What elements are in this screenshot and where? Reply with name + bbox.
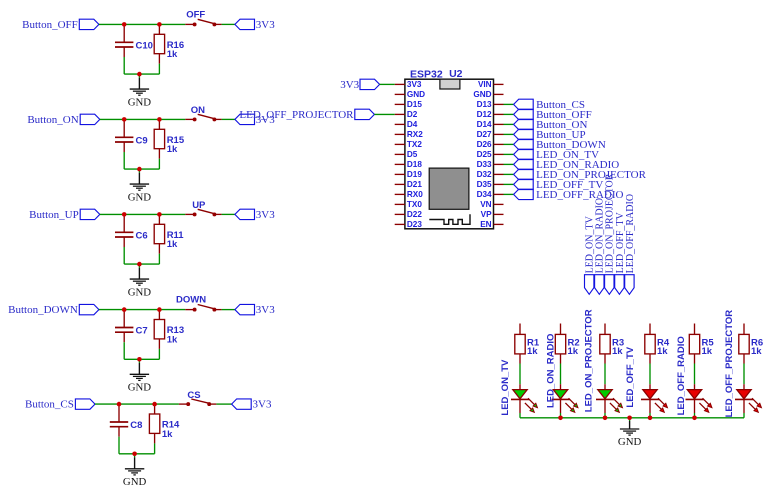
svg-text:GND: GND: [123, 476, 147, 488]
hierarchical label LED_ON_PROJECTOR: [514, 169, 647, 181]
hierarchical label Button_OFF: [22, 19, 99, 31]
junction: [122, 307, 127, 312]
svg-text:D15: D15: [407, 100, 422, 109]
wire bottom: [124, 263, 159, 265]
wire to 3V3: [222, 23, 235, 25]
wire: [519, 364, 521, 385]
svg-text:CS: CS: [187, 390, 200, 401]
svg-text:D25: D25: [477, 150, 492, 159]
resistor R16 1k: [154, 24, 184, 74]
pin D12 (right): [477, 110, 504, 119]
svg-text:UP: UP: [192, 200, 206, 211]
wire to label Button_UP: [504, 133, 514, 135]
ground: [123, 454, 147, 488]
hierarchical label LED_ON_RADIO (vertical): [595, 198, 606, 294]
junction: [157, 212, 162, 217]
wire: [649, 364, 651, 385]
wire to 3V3: [222, 309, 235, 311]
wire Button_ON net: [100, 118, 124, 120]
svg-text:1k: 1k: [612, 346, 623, 357]
hierarchical label Button_DOWN: [8, 304, 99, 316]
wire: [743, 364, 745, 385]
junction: [122, 212, 127, 217]
LED LED_OFF_TV: [641, 384, 667, 413]
pin D22 (left): [395, 210, 423, 219]
hierarchical label Button_ON: [514, 119, 588, 131]
svg-text:1k: 1k: [751, 346, 762, 357]
svg-text:D32: D32: [477, 170, 492, 179]
svg-text:C8: C8: [130, 420, 142, 431]
junction: [137, 262, 142, 267]
junction: [137, 357, 142, 362]
hierarchical label Button_UP: [514, 129, 586, 141]
wire: [694, 413, 696, 418]
pin D18 (left): [395, 160, 423, 169]
power label 3V3: [235, 209, 275, 221]
wire: [743, 413, 745, 418]
wire to label Button_ON: [504, 123, 514, 125]
wire: [124, 213, 159, 215]
wire to label LED_ON_RADIO: [504, 163, 514, 165]
LED LED_OFF_RADIO: [686, 384, 712, 413]
pin D14 (right): [477, 120, 504, 129]
resistor R11 1k: [154, 214, 184, 264]
svg-text:Button_CS: Button_CS: [25, 399, 74, 411]
wire: [649, 413, 651, 418]
wire to label LED_ON_TV: [504, 153, 514, 155]
resistor R3 1k: [600, 324, 624, 364]
svg-text:D27: D27: [477, 130, 492, 139]
svg-text:1k: 1k: [702, 346, 713, 357]
svg-text:3V3: 3V3: [407, 80, 422, 89]
hierarchical label Button_ON: [27, 114, 99, 126]
pin D15 (left): [395, 100, 423, 109]
svg-text:ESP32: ESP32: [410, 69, 443, 81]
wire to label LED_ON_PROJECTOR: [504, 173, 514, 175]
svg-text:D13: D13: [477, 100, 492, 109]
svg-text:VIN: VIN: [478, 80, 492, 89]
svg-text:EN: EN: [480, 220, 491, 229]
wire: [119, 403, 155, 405]
svg-text:RX2: RX2: [407, 130, 423, 139]
resistor R1 1k: [515, 324, 540, 364]
pin D33 (right): [477, 160, 504, 169]
svg-text:D5: D5: [407, 150, 418, 159]
wire bottom: [124, 168, 159, 170]
switch ON: [185, 105, 221, 121]
pin GND (right): [473, 90, 503, 99]
svg-text:D22: D22: [407, 210, 422, 219]
svg-text:GND: GND: [618, 436, 642, 448]
hierarchical label Button_DOWN: [514, 139, 606, 151]
junction: [157, 307, 162, 312]
pin TX0 (left): [395, 200, 423, 209]
svg-text:LED_OFF_PROJECTOR: LED_OFF_PROJECTOR: [724, 310, 735, 418]
svg-text:1k: 1k: [167, 144, 178, 155]
svg-text:DOWN: DOWN: [176, 295, 206, 306]
junction: [137, 167, 142, 172]
hierarchical label Button_CS: [514, 99, 585, 111]
wire to label Button_CS: [504, 103, 514, 105]
svg-text:VN: VN: [480, 200, 491, 209]
power label 3V3: [235, 114, 275, 126]
svg-text:LED_OFF_RADIO: LED_OFF_RADIO: [625, 194, 636, 273]
svg-text:C7: C7: [136, 326, 148, 337]
wire to label LED_OFF_TV: [504, 183, 514, 185]
wire: [604, 364, 606, 385]
hierarchical label Button_UP: [29, 209, 100, 221]
wire: [519, 413, 521, 418]
hierarchical label LED_OFF_PROJECTOR (to D2): [239, 109, 374, 121]
wire: [560, 413, 562, 418]
switch UP: [185, 200, 221, 216]
wire 3V3 to pin: [380, 83, 395, 85]
junction: [558, 416, 563, 421]
svg-text:1k: 1k: [167, 239, 178, 250]
junction: [157, 117, 162, 122]
svg-text:D33: D33: [477, 160, 492, 169]
hierarchical label LED_OFF_RADIO: [514, 189, 624, 201]
svg-text:LED_ON_TV: LED_ON_TV: [500, 359, 511, 416]
hierarchical label Button_CS: [25, 399, 95, 411]
pin RX0 (left): [395, 190, 424, 199]
wire: [124, 23, 159, 25]
wire: [560, 364, 562, 385]
pin D23 (left): [395, 220, 423, 229]
pin D27 (right): [477, 130, 504, 139]
svg-text:1k: 1k: [167, 49, 178, 60]
pin D32 (right): [477, 170, 504, 179]
svg-text:D23: D23: [407, 220, 422, 229]
wire to 3V3: [216, 403, 231, 405]
capacitor C9: [115, 119, 148, 169]
pin D5 (left): [395, 150, 418, 159]
hierarchical label LED_OFF_TV: [514, 179, 604, 191]
svg-text:1k: 1k: [657, 346, 668, 357]
junction: [117, 402, 122, 407]
svg-text:D19: D19: [407, 170, 422, 179]
svg-text:GND: GND: [128, 382, 152, 394]
svg-text:3V3: 3V3: [340, 79, 359, 91]
wire: [604, 413, 606, 418]
resistor R6 1k: [739, 324, 763, 364]
svg-text:TX0: TX0: [407, 200, 422, 209]
svg-text:1k: 1k: [568, 346, 579, 357]
power label 3V3 (ESP32): [340, 79, 379, 91]
antenna trace: [429, 214, 470, 224]
svg-text:RX0: RX0: [407, 190, 423, 199]
svg-text:LED_OFF_RADIO: LED_OFF_RADIO: [676, 336, 687, 415]
svg-text:D2: D2: [407, 110, 418, 119]
LED LED_OFF_PROJECTOR: [735, 384, 761, 413]
svg-text:3V3: 3V3: [256, 209, 275, 221]
svg-text:3V3: 3V3: [256, 304, 275, 316]
svg-text:3V3: 3V3: [256, 19, 275, 31]
ground: [128, 169, 152, 203]
capacitor C8: [110, 404, 143, 454]
resistor R4 1k: [645, 324, 670, 364]
svg-text:1k: 1k: [162, 429, 173, 440]
wire to label Button_OFF: [504, 113, 514, 115]
pin VN (right): [480, 200, 503, 209]
wire bottom: [119, 453, 155, 455]
svg-text:1k: 1k: [167, 334, 178, 345]
svg-text:D35: D35: [477, 180, 492, 189]
capacitor C6: [115, 214, 148, 264]
junction: [627, 416, 632, 421]
capacitor C7: [115, 310, 148, 360]
svg-text:D21: D21: [407, 180, 422, 189]
wire to switch: [159, 309, 185, 311]
svg-text:C10: C10: [136, 40, 153, 51]
wire to switch: [159, 23, 185, 25]
svg-text:LED_ON_RADIO: LED_ON_RADIO: [546, 334, 557, 408]
pin D35 (right): [477, 180, 504, 189]
resistor R2 1k: [555, 324, 579, 364]
svg-text:LED_ON_PROJECTOR: LED_ON_PROJECTOR: [584, 309, 595, 412]
power label 3V3: [232, 399, 272, 411]
resistor R5 1k: [689, 324, 714, 364]
wire: [124, 309, 159, 311]
LED LED_ON_TV: [511, 384, 537, 413]
svg-text:Button_DOWN: Button_DOWN: [8, 304, 78, 316]
pin RX2 (left): [395, 130, 424, 139]
pin TX2 (left): [395, 140, 423, 149]
wire Button_OFF net: [99, 23, 124, 25]
hierarchical label LED_ON_RADIO: [514, 159, 620, 171]
junction: [132, 452, 137, 457]
switch OFF: [185, 10, 221, 27]
hierarchical label LED_OFF_TV (vertical): [615, 212, 626, 295]
junction: [137, 72, 142, 77]
wire to label Button_DOWN: [504, 143, 514, 145]
hierarchical label LED_ON_TV: [514, 149, 599, 161]
wire to switch: [159, 213, 185, 215]
junction: [157, 22, 162, 27]
ESP32 chip block: [429, 168, 469, 209]
resistor R13 1k: [154, 310, 184, 360]
ground: [128, 74, 152, 108]
switch CS: [179, 390, 217, 406]
resistor R15 1k: [154, 119, 185, 169]
switch DOWN: [176, 295, 222, 312]
svg-text:3V3: 3V3: [253, 399, 272, 411]
pin D26 (right): [477, 140, 504, 149]
svg-text:Button_ON: Button_ON: [27, 114, 78, 126]
pin D25 (right): [477, 150, 504, 159]
pin EN (right): [480, 220, 503, 229]
svg-text:D4: D4: [407, 120, 418, 129]
wire LED_OFF_PROJECTOR to D2: [374, 113, 394, 115]
wire Button_UP net: [100, 213, 124, 215]
svg-text:Button_UP: Button_UP: [29, 209, 79, 221]
LED LED_ON_RADIO: [552, 384, 578, 413]
pin D2 (left): [395, 110, 418, 119]
svg-text:D12: D12: [477, 110, 492, 119]
junction: [122, 22, 127, 27]
wire to label LED_OFF_RADIO: [504, 193, 514, 195]
pin GND (left): [395, 90, 425, 99]
wire to 3V3: [222, 213, 235, 215]
svg-text:GND: GND: [128, 96, 152, 108]
svg-text:GND: GND: [473, 90, 491, 99]
wire bottom: [124, 358, 159, 360]
capacitor C10: [115, 24, 153, 74]
pin 3V3 (left): [395, 80, 422, 89]
svg-text:OFF: OFF: [186, 10, 205, 21]
wire Button_DOWN net: [99, 309, 124, 311]
svg-text:GND: GND: [128, 286, 152, 298]
svg-text:D26: D26: [477, 140, 492, 149]
junction: [122, 117, 127, 122]
hierarchical label LED_OFF_RADIO (vertical): [625, 194, 636, 294]
wire bottom: [124, 73, 159, 75]
hierarchical label LED_ON_TV (vertical): [585, 215, 596, 294]
power label 3V3: [235, 304, 275, 316]
pin VIN (right): [478, 80, 504, 89]
wire: [124, 118, 159, 120]
resistor R14 1k: [149, 404, 180, 454]
wire to switch: [159, 118, 185, 120]
svg-text:1k: 1k: [527, 346, 538, 357]
power label 3V3: [235, 19, 275, 31]
junction: [603, 416, 608, 421]
svg-text:C6: C6: [136, 230, 148, 241]
ESP32 module U2 body: [405, 79, 494, 229]
svg-text:VP: VP: [481, 210, 492, 219]
svg-text:TX2: TX2: [407, 140, 422, 149]
ground: [128, 264, 152, 298]
ground: [618, 418, 642, 448]
svg-text:D34: D34: [477, 190, 492, 199]
wire: [694, 364, 696, 385]
wire to switch: [155, 403, 179, 405]
svg-text:LED_OFF_PROJECTOR: LED_OFF_PROJECTOR: [239, 109, 354, 121]
svg-text:GND: GND: [128, 191, 152, 203]
svg-text:C9: C9: [136, 135, 148, 146]
junction: [152, 402, 157, 407]
junction: [692, 416, 697, 421]
pin D34 (right): [477, 190, 504, 199]
pin D21 (left): [395, 180, 423, 189]
svg-text:D18: D18: [407, 160, 422, 169]
svg-text:ON: ON: [191, 105, 205, 116]
LED LED_ON_PROJECTOR: [596, 384, 622, 413]
antenna connector block: [440, 79, 460, 89]
pin VP (right): [481, 210, 504, 219]
wire Button_CS net: [95, 403, 119, 405]
hierarchical label Button_OFF: [514, 109, 592, 121]
wire LED ground bus: [520, 417, 744, 419]
svg-text:Button_OFF: Button_OFF: [22, 19, 78, 31]
pin D19 (left): [395, 170, 423, 179]
pin D13 (right): [477, 100, 504, 109]
hierarchical label LED_ON_PROJECTOR (vertical): [605, 173, 616, 294]
junction: [648, 416, 653, 421]
svg-text:LED_OFF_TV: LED_OFF_TV: [625, 346, 636, 407]
svg-text:U2: U2: [449, 68, 463, 80]
svg-text:D14: D14: [477, 120, 492, 129]
wire to 3V3: [222, 118, 235, 120]
svg-text:GND: GND: [407, 90, 425, 99]
ground: [128, 359, 152, 393]
pin D4 (left): [395, 120, 418, 129]
